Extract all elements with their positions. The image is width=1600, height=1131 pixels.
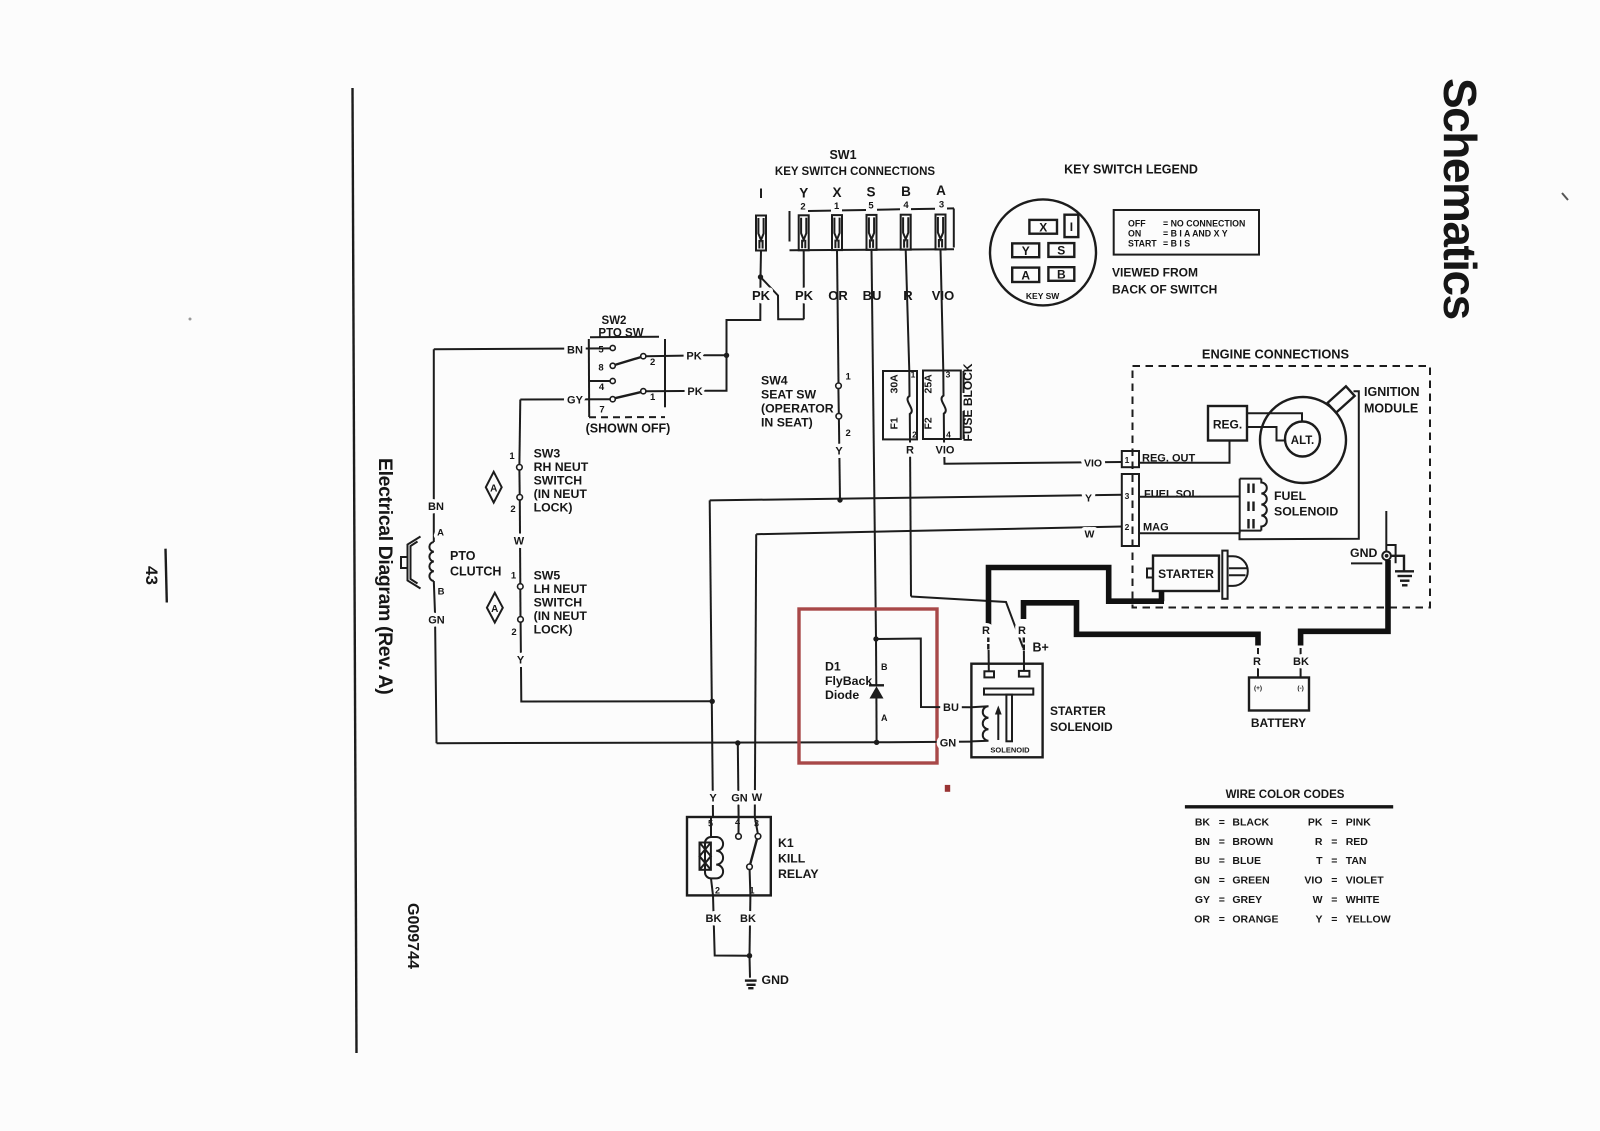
SW4 pin2 contact: [836, 413, 842, 419]
svg-text:VIEWED FROM: VIEWED FROM: [1112, 266, 1198, 280]
K1 switch: [747, 817, 761, 895]
svg-text:LOCK): LOCK): [534, 623, 573, 637]
svg-text:SWITCH: SWITCH: [534, 474, 583, 488]
SW5 arm: [519, 589, 521, 616]
svg-text:Y: Y: [517, 655, 525, 667]
SW2 pin5 contact: [610, 345, 615, 350]
key face box Y: [1012, 243, 1039, 257]
SW1 wire color labels: [752, 288, 954, 303]
svg-text:SEAT SW: SEAT SW: [761, 388, 817, 402]
switch SW2 labels: [598, 315, 643, 340]
page border rule: [353, 88, 357, 1053]
svg-text:A: A: [881, 713, 888, 723]
SW3 arm: [518, 470, 520, 494]
svg-text:R: R: [1253, 656, 1261, 668]
stray scan dot: [189, 318, 192, 321]
wire Y drop to K1 pin5: [710, 500, 713, 817]
svg-text:R: R: [1315, 836, 1323, 848]
svg-text:BATTERY: BATTERY: [1251, 716, 1306, 730]
starter motor body: [1153, 556, 1219, 591]
svg-text:IN SEAT): IN SEAT): [761, 416, 813, 430]
svg-text:PINK: PINK: [1346, 816, 1372, 828]
SW1 spade terminal B pin4: [901, 215, 911, 250]
wire SW5 to Y corner: [521, 622, 713, 701]
svg-text:STARTER: STARTER: [1158, 567, 1214, 581]
SW1 pin numbers 2 1 5 4 3: [800, 199, 944, 212]
svg-text:30A: 30A: [889, 374, 901, 394]
SW3 pin2 contact: [517, 495, 523, 501]
svg-text:R: R: [906, 445, 914, 457]
svg-text:2: 2: [800, 202, 805, 213]
svg-text:7: 7: [599, 405, 604, 416]
svg-text:BN: BN: [567, 344, 583, 356]
SW1 spade terminal S pin5: [867, 215, 877, 250]
thick cable GND to battery negative: [1301, 560, 1388, 646]
svg-text:PK: PK: [795, 288, 814, 303]
svg-text:D1: D1: [825, 660, 841, 674]
svg-text:TAN: TAN: [1346, 855, 1367, 867]
SW3 pin1 contact: [517, 465, 523, 471]
svg-text:3: 3: [939, 199, 944, 210]
wire GN long horizontal: [437, 741, 877, 744]
SW2 pin2 contact: [641, 354, 646, 359]
wire R to solenoid B+: [911, 597, 1023, 648]
wire PTO clutch to GN rail: [434, 581, 437, 743]
svg-text:IGNITION: IGNITION: [1364, 385, 1420, 399]
svg-text:=: =: [1219, 875, 1225, 887]
label K1 KILL RELAY: [778, 836, 819, 881]
svg-text:4: 4: [946, 430, 951, 440]
wire BU from key S down to diode junction: [872, 250, 877, 639]
wire GN drop to K1 pin4: [737, 743, 740, 817]
K1 top wire labels: [709, 792, 762, 805]
battery negative lead: [1300, 648, 1302, 678]
wire REG to ALT top: [1247, 413, 1302, 421]
svg-text:=: =: [1219, 913, 1225, 925]
wire FUEL SOL to fuel solenoid: [1139, 496, 1240, 498]
svg-text:(SHOWN OFF): (SHOWN OFF): [586, 422, 671, 436]
wire R from key B to F1: [906, 250, 910, 371]
wire GY into SW2 pin7: [520, 398, 610, 400]
svg-text:A: A: [1021, 268, 1030, 282]
svg-text:5: 5: [598, 345, 604, 356]
svg-text:RELAY: RELAY: [778, 867, 819, 881]
SW2 pin7 contact: [610, 397, 615, 402]
label PTO CLUTCH: [450, 549, 501, 579]
label SW5 LH NEUT SWITCH: [534, 569, 588, 637]
node Y junction from SW5: [710, 699, 715, 704]
label IGNITION MODULE: [1364, 385, 1420, 416]
svg-text:8: 8: [598, 363, 603, 374]
svg-text:MAG: MAG: [1143, 522, 1169, 534]
svg-text:BLUE: BLUE: [1232, 855, 1261, 867]
label D1 FlyBack Diode: [825, 660, 872, 703]
svg-text:Y: Y: [1085, 493, 1092, 505]
wire R below F1: [910, 439, 911, 596]
svg-text:PTO: PTO: [450, 549, 476, 563]
svg-text:X: X: [1039, 220, 1047, 234]
regulator REG box: [1208, 406, 1247, 441]
SW1 spade terminal A pin3: [936, 215, 946, 250]
wire REG OUT to regulator: [1139, 441, 1230, 463]
svg-text:FlyBack: FlyBack: [825, 674, 872, 688]
wire I to PK rail left: [699, 277, 761, 391]
SW1 spade terminal I: [756, 216, 766, 251]
svg-text:A: A: [491, 604, 498, 615]
svg-text:2: 2: [715, 886, 720, 896]
SW1 spade terminal X pin1: [832, 215, 842, 250]
svg-text:B: B: [1057, 268, 1066, 282]
wire SW2 pin2 to PK: [646, 354, 700, 357]
svg-text:KEY SWITCH CONNECTIONS: KEY SWITCH CONNECTIONS: [775, 166, 935, 178]
svg-text:WIRE COLOR CODES: WIRE COLOR CODES: [1226, 789, 1345, 801]
fuse block bracket: [963, 371, 965, 439]
node diode bottom junction: [874, 740, 879, 745]
svg-text:Y: Y: [709, 793, 717, 805]
svg-text:Electrical Diagram (Rev. A): Electrical Diagram (Rev. A): [374, 458, 396, 694]
K1 coil: [700, 817, 724, 895]
svg-text:VIO: VIO: [936, 445, 955, 457]
SW4 arm: [837, 389, 839, 414]
svg-text:B: B: [901, 184, 911, 199]
K1 pin4 stub: [736, 817, 742, 839]
wire SW2 pin1 to PK: [646, 390, 699, 392]
svg-text:ENGINE CONNECTIONS: ENGINE CONNECTIONS: [1202, 347, 1350, 362]
svg-text:FUEL SOL.: FUEL SOL.: [1144, 489, 1201, 501]
svg-text:2: 2: [1125, 522, 1130, 532]
key face box A: [1012, 268, 1039, 283]
svg-text:BK: BK: [706, 913, 722, 925]
key face box S: [1048, 243, 1074, 257]
wire color codes table: [1194, 816, 1390, 925]
SW2 pole1 arm 8-2: [615, 357, 641, 365]
svg-text:2: 2: [650, 357, 655, 368]
red marker square: [945, 785, 950, 792]
wire GN to solenoid: [877, 741, 972, 744]
svg-text:1: 1: [511, 571, 517, 582]
svg-text:GND: GND: [762, 973, 789, 987]
SW2 pin1 contact: [641, 389, 646, 394]
wire I stub: [760, 251, 763, 278]
engine GND terminal: [1351, 511, 1396, 563]
svg-text:=: =: [1219, 836, 1225, 848]
thick cable solenoid R to starter: [989, 568, 1165, 631]
svg-text:Y: Y: [1315, 913, 1322, 925]
SW1 spade terminal Y pin2: [799, 215, 809, 250]
left terminal lead dashes: [987, 637, 989, 650]
svg-text:R: R: [982, 625, 990, 637]
svg-text:5: 5: [868, 201, 874, 212]
wire Y horizontal to engine pin3: [710, 495, 1122, 501]
SW2 pin4 contact: [610, 378, 615, 383]
fuel solenoid core dashes: [1249, 484, 1254, 529]
SW2 pin4 stub: [589, 380, 610, 382]
solenoid terminal left: [984, 671, 994, 677]
SW2 pin8 contact: [610, 363, 615, 368]
svg-text:STARTER: STARTER: [1050, 704, 1106, 718]
node diode top junction: [873, 636, 878, 641]
wire K1 pin1 to ground: [749, 895, 752, 955]
svg-text:BK: BK: [740, 913, 756, 925]
svg-text:BK: BK: [1195, 816, 1211, 828]
key face box B: [1048, 267, 1074, 282]
svg-text:R: R: [1018, 625, 1026, 637]
SW5 pin2 contact: [518, 617, 524, 623]
battery positive lead: [1257, 648, 1259, 678]
key face box I: [1065, 215, 1079, 237]
legend note VIEWED FROM BACK OF SWITCH: [1112, 266, 1217, 297]
diode D1: [869, 639, 884, 742]
svg-text:A: A: [490, 483, 497, 494]
wire color codes rule: [1185, 805, 1393, 808]
svg-text:GN: GN: [1194, 875, 1210, 887]
svg-text:FUSE BLOCK: FUSE BLOCK: [961, 363, 975, 441]
svg-text:SW1: SW1: [829, 148, 856, 162]
node PK junction: [724, 353, 729, 358]
svg-text:SOLENOID: SOLENOID: [990, 746, 1030, 755]
svg-text:=: =: [1331, 913, 1337, 925]
PTO clutch connector housing: [401, 537, 421, 589]
svg-text:LH NEUT: LH NEUT: [534, 582, 588, 596]
node Y junction at SW4: [837, 497, 842, 502]
relay K1 box: [687, 817, 771, 895]
svg-text:4: 4: [903, 200, 909, 211]
svg-text:=: =: [1219, 894, 1225, 906]
wire VIO below F2 to engine pin1: [944, 439, 1122, 464]
fuse F1 element: [908, 371, 912, 439]
solenoid T plunger: [984, 689, 1033, 742]
fuse F2 box: [923, 371, 961, 440]
svg-text:BN: BN: [1195, 836, 1210, 848]
svg-text:GN: GN: [428, 615, 445, 627]
svg-text:OFF: OFF: [1128, 219, 1146, 229]
wire OR from key X to SW4: [837, 250, 839, 383]
diamond marker A lower: [487, 593, 503, 623]
battery box: [1249, 678, 1309, 711]
alternator inner circle: [1285, 422, 1320, 457]
left terminal lead: [988, 650, 990, 671]
svg-text:= B I S: = B I S: [1163, 238, 1190, 248]
diamond marker A upper: [486, 472, 502, 503]
wire K1 pin2 to ground: [713, 895, 750, 955]
svg-text:S: S: [1057, 244, 1065, 258]
svg-text:S: S: [866, 184, 875, 199]
solenoid terminal right: [1019, 671, 1030, 677]
svg-text:2: 2: [912, 430, 917, 440]
svg-text:VIO: VIO: [1084, 458, 1102, 470]
svg-text:2: 2: [846, 428, 851, 439]
right terminal lead: [1023, 651, 1025, 671]
starter bell housing: [1228, 556, 1248, 586]
svg-text:1: 1: [650, 392, 656, 403]
alternator outer circle: [1260, 397, 1346, 483]
svg-text:REG.: REG.: [1213, 418, 1242, 432]
svg-text:GND: GND: [1350, 546, 1377, 560]
svg-text:KILL: KILL: [778, 852, 806, 866]
key switch face circle: [990, 199, 1096, 305]
svg-text:BLACK: BLACK: [1232, 816, 1269, 828]
wire SW4 to Y junction: [839, 419, 840, 500]
svg-text:= B I A AND X Y: = B I A AND X Y: [1163, 229, 1228, 239]
svg-text:W: W: [1085, 529, 1095, 541]
svg-text:PK: PK: [686, 351, 701, 363]
svg-text:K1: K1: [778, 836, 794, 850]
svg-text:=: =: [1219, 816, 1225, 828]
ground stem: [749, 956, 752, 978]
svg-text:G009744: G009744: [404, 903, 421, 969]
svg-text:VIO: VIO: [1304, 875, 1322, 887]
svg-text:3: 3: [946, 370, 951, 380]
svg-text:CLUTCH: CLUTCH: [450, 565, 501, 579]
svg-text:F2: F2: [923, 417, 935, 429]
SW5 pin1 contact: [518, 584, 524, 590]
wire W drop to K1 pin3: [755, 534, 756, 817]
wire VIO from key A to F2: [941, 250, 944, 371]
svg-text:GN: GN: [731, 793, 748, 805]
svg-text:I: I: [1070, 220, 1073, 234]
svg-text:=: =: [1219, 855, 1225, 867]
svg-text:1: 1: [911, 370, 916, 380]
ground symbol: [745, 981, 757, 989]
starter end plate: [1222, 551, 1227, 599]
svg-text:2: 2: [510, 504, 515, 515]
node ground junction: [747, 953, 752, 958]
svg-text:(OPERATOR: (OPERATOR: [761, 402, 834, 416]
svg-text:PK: PK: [1308, 816, 1323, 828]
starter ground stub: [1159, 591, 1165, 601]
svg-text:A: A: [936, 183, 946, 198]
svg-text:VIOLET: VIOLET: [1346, 875, 1385, 887]
svg-text:Schematics: Schematics: [1434, 78, 1486, 319]
label SW3 RH NEUT SWITCH: [534, 447, 589, 515]
SW2 bracket: [589, 337, 665, 418]
svg-text:RED: RED: [1346, 836, 1369, 848]
node I junction: [758, 274, 763, 279]
wire GY drop to SW3: [518, 400, 521, 465]
svg-text:YELLOW: YELLOW: [1346, 913, 1391, 925]
highlight red box: [799, 609, 937, 763]
svg-text:X: X: [832, 185, 841, 200]
svg-text:=: =: [1331, 875, 1337, 887]
SW4 pin1 contact: [836, 383, 842, 389]
key face box X: [1029, 220, 1057, 234]
PTO clutch coil: [429, 542, 433, 581]
svg-text:RH NEUT: RH NEUT: [534, 460, 589, 474]
starter solenoid box: [971, 664, 1042, 758]
svg-text:(IN NEUT: (IN NEUT: [534, 487, 588, 501]
svg-text:1: 1: [1125, 455, 1130, 465]
SW1 connector bracket rails: [790, 208, 955, 250]
wire BN into SW2 pin5: [434, 347, 610, 350]
svg-text:SWITCH: SWITCH: [534, 596, 583, 610]
svg-text:OR: OR: [1194, 913, 1210, 925]
svg-text:=: =: [1331, 894, 1337, 906]
engine connector body box: [1122, 474, 1139, 546]
fuse F2 element: [942, 371, 946, 439]
svg-text:BU: BU: [1195, 855, 1210, 867]
wire BN down to PTO clutch: [433, 349, 435, 542]
right terminal lead dashes: [1023, 637, 1025, 650]
svg-text:WHITE: WHITE: [1346, 894, 1380, 906]
svg-text:Diode: Diode: [825, 688, 859, 702]
svg-text:SOLENOID: SOLENOID: [1274, 505, 1338, 519]
svg-text:1: 1: [846, 372, 852, 383]
node GN junction for K1: [735, 740, 740, 745]
wire diode junction to solenoid BU: [876, 639, 971, 708]
svg-text:START: START: [1128, 238, 1157, 248]
svg-text:GN: GN: [940, 737, 957, 749]
solenoid coil: [971, 706, 988, 741]
svg-text:SW4: SW4: [761, 374, 788, 388]
svg-text:1: 1: [509, 451, 515, 462]
svg-text:KEY SWITCH LEGEND: KEY SWITCH LEGEND: [1064, 163, 1198, 177]
svg-text:BROWN: BROWN: [1232, 836, 1273, 848]
starter tab: [1147, 569, 1153, 578]
label SW4 SEAT SW: [761, 374, 834, 430]
svg-text:=: =: [1331, 816, 1337, 828]
svg-text:R: R: [903, 288, 913, 303]
svg-text:B: B: [438, 587, 445, 598]
svg-text:SW3: SW3: [534, 447, 561, 461]
engine connections dashed box: [1133, 366, 1431, 608]
svg-text:SOLENOID: SOLENOID: [1050, 720, 1113, 734]
legend table box: [1114, 210, 1259, 255]
stray scan tick: [1562, 193, 1568, 200]
wire MAG to ignition module: [1139, 391, 1359, 539]
svg-text:KEY SW: KEY SW: [1026, 291, 1060, 301]
wire Y stub: [803, 250, 805, 319]
wire W horizontal from engine pin2: [756, 527, 1122, 535]
page number 43: [142, 549, 167, 603]
svg-text:VIO: VIO: [932, 288, 954, 303]
svg-text:(+): (+): [1254, 685, 1262, 692]
svg-text:B+: B+: [1033, 641, 1049, 655]
svg-text:=: =: [1331, 855, 1337, 867]
svg-text:43: 43: [142, 566, 161, 585]
svg-text:BN: BN: [428, 501, 444, 513]
svg-text:Y: Y: [1022, 244, 1030, 258]
svg-text:F1: F1: [889, 417, 901, 429]
svg-text:LOCK): LOCK): [534, 501, 573, 515]
svg-text:W: W: [514, 536, 525, 548]
svg-text:FUEL: FUEL: [1274, 489, 1307, 503]
svg-text:GY: GY: [1195, 894, 1210, 906]
svg-text:(IN NEUT: (IN NEUT: [534, 609, 588, 623]
SW1 terminal letters I Y X S B A: [759, 183, 946, 201]
svg-text:4: 4: [599, 382, 605, 393]
svg-text:BU: BU: [943, 702, 959, 714]
wire I diagonal to Y: [761, 277, 804, 319]
svg-text:SW2: SW2: [602, 315, 627, 327]
engine connector pin1 box: [1122, 451, 1139, 467]
label STARTER SOLENOID: [1050, 704, 1113, 734]
fuse F1 box: [883, 371, 917, 439]
SW2 pole2 arm 7-1: [615, 392, 641, 398]
fuel solenoid body: [1240, 479, 1267, 534]
wire PK branch to SW2 pin2: [700, 354, 727, 356]
wire SW3 to SW5: [519, 500, 522, 584]
svg-text:PK: PK: [687, 386, 702, 398]
svg-text:I: I: [759, 186, 763, 201]
svg-text:A: A: [437, 528, 444, 539]
engine ground symbol: [1391, 556, 1414, 586]
switch SW1 title: [775, 148, 935, 178]
svg-text:ORANGE: ORANGE: [1232, 913, 1278, 925]
solenoid arrow: [995, 706, 1002, 741]
svg-text:GY: GY: [567, 394, 584, 406]
svg-text:=: =: [1331, 836, 1337, 848]
ignition module body: [1327, 386, 1354, 412]
